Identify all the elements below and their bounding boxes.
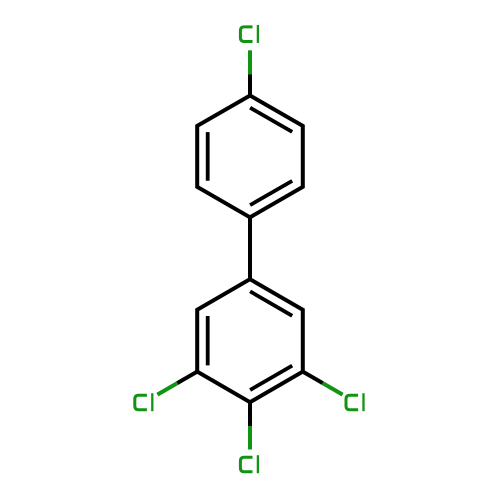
bond C-Cl top (chlorine half, green) <box>248 50 252 74</box>
chlorine label Cl (top, 4'-Cl) <box>240 25 258 43</box>
chlorine label Cl (right, 5-Cl) <box>346 393 364 411</box>
bond C-Cl bottom (chlorine half, green) <box>248 426 252 450</box>
chlorine label Cl (bottom, 4-Cl) <box>240 455 258 473</box>
double bond inner line ring2 C1'=C2' (top-right) <box>250 291 292 315</box>
double bond inner line ring1 C1=C2 (top-right) <box>250 108 292 132</box>
bond C-Cl right (chlorine half, green) <box>323 383 343 395</box>
biphenyl single bond C4-C1' <box>248 217 252 279</box>
chlorine label Cl (left, 3-Cl) <box>135 393 153 411</box>
benzene ring 1 (top phenyl) outline <box>197 96 303 218</box>
bond C-Cl right (carbon half, black) <box>303 372 323 384</box>
bond C-Cl top (carbon half, black) <box>248 75 252 96</box>
benzene ring 2 (bottom phenyl) outline <box>197 279 303 402</box>
bond C-Cl bottom (carbon half, black) <box>248 402 252 426</box>
double bond inner line ring1 C3=C4 (bottom-right) <box>250 181 292 205</box>
double bond inner line ring1 C5=C6 (left) <box>206 132 210 181</box>
double bond inner line ring2 C3'=C4' (bottom-right) <box>250 366 292 390</box>
bond C-Cl left (carbon half, black) <box>177 372 197 384</box>
bond C-Cl left (chlorine half, green) <box>157 383 177 395</box>
double bond inner line ring2 C5'=C6' (left) <box>206 316 210 365</box>
